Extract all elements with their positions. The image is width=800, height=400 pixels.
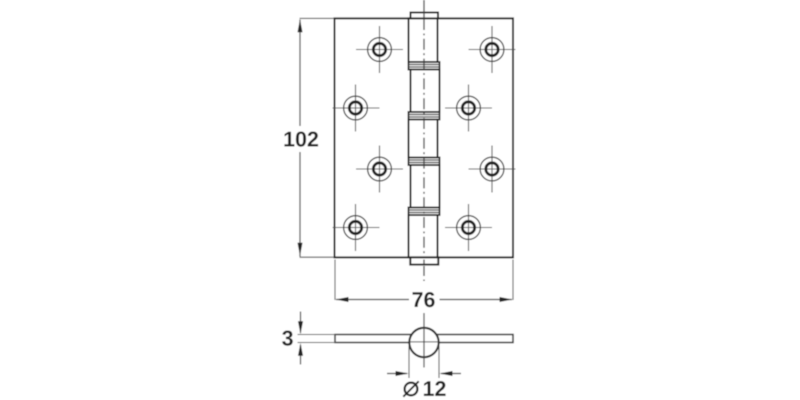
dimension D12 extension line right xyxy=(438,346,440,378)
dimension 3 upper arrow line xyxy=(300,312,302,334)
dimension 76 arrow left xyxy=(336,297,349,302)
bearing washer W1 xyxy=(409,62,440,70)
side view vertical center line xyxy=(423,313,425,368)
dimension 3 upper arrowhead xyxy=(298,321,303,334)
side view horizontal center line through barrel xyxy=(410,341,439,343)
dimension 102 line xyxy=(299,20,301,257)
dimension 3 lower arrow line xyxy=(300,345,302,365)
barrel knuckle segment K3 xyxy=(409,120,438,158)
hinge plate outline xyxy=(335,18,514,257)
dimension D12 left arrow line xyxy=(387,373,407,375)
dimension text 102 xyxy=(284,131,318,146)
dimension 76 extension line right xyxy=(512,260,514,301)
screw hole H1 (row1 left) xyxy=(356,26,403,73)
dimension 76 arrow right xyxy=(500,297,513,302)
screw hole H3 (row2 left) xyxy=(333,85,380,132)
dimension 102 extension line top xyxy=(300,17,335,19)
barrel knuckle segment K5 xyxy=(409,215,438,257)
side view barrel circle xyxy=(409,328,438,357)
screw hole H7 (row4 left) xyxy=(333,204,380,251)
screw hole H4 (row2 right) xyxy=(445,85,492,132)
dimension D12 right arrow line xyxy=(441,373,461,375)
bearing washer W4 xyxy=(409,208,440,216)
dimension 102 extension line bottom xyxy=(300,256,335,258)
barrel knuckle segment K4 xyxy=(411,165,440,208)
dimension 102 arrow down xyxy=(298,243,303,256)
screw hole H6 (row3 right) xyxy=(469,146,516,193)
dimension 76 line xyxy=(336,299,512,301)
barrel knuckle segment K1 xyxy=(409,18,438,62)
dimension text 76 xyxy=(412,292,434,307)
dimension D12 left arrowhead xyxy=(396,371,409,376)
pin top cap xyxy=(411,13,439,19)
screw hole H5 (row3 left) xyxy=(356,146,403,193)
bearing washer W3 xyxy=(409,158,440,166)
dimension 3 lower arrowhead xyxy=(298,343,303,356)
barrel center line (dash-dot) xyxy=(423,0,425,281)
dimension 3 extension line top xyxy=(298,334,337,336)
dimension text 3 xyxy=(282,330,293,345)
pin bottom cap xyxy=(410,257,438,264)
bearing washer W2 xyxy=(409,112,440,120)
dimension 76 extension line left xyxy=(334,260,336,301)
dimension text D12 xyxy=(403,381,418,396)
side view left leaf xyxy=(335,335,424,343)
side view right leaf xyxy=(424,335,513,343)
screw hole H2 (row1 right) xyxy=(469,26,516,73)
dimension 3 extension line bottom xyxy=(298,342,337,344)
dimension D12 right arrowhead xyxy=(440,371,453,376)
screw hole H8 (row4 right) xyxy=(445,204,492,251)
barrel knuckle segment K2 xyxy=(411,70,440,113)
dimension D12 extension line left xyxy=(408,346,410,378)
dimension 102 arrow up xyxy=(298,19,303,32)
